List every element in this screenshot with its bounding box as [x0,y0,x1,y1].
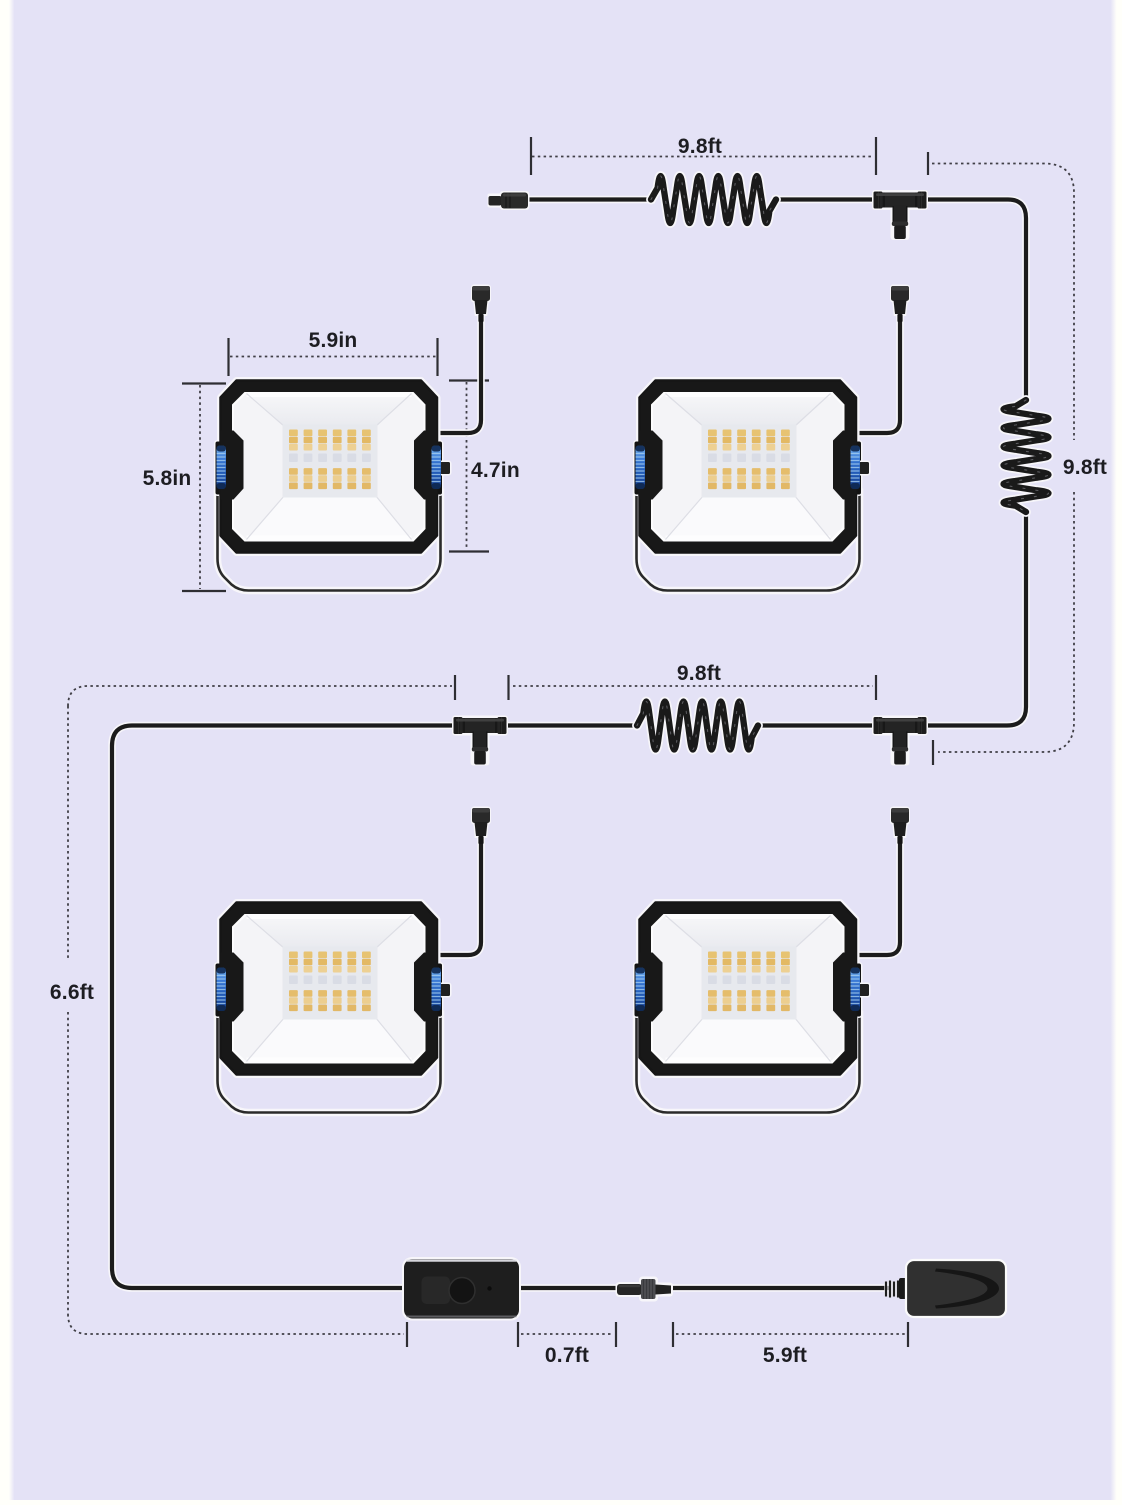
dimension 9.8ft middle [68,662,876,706]
floodlight 1 [216,381,451,591]
dimension 5.9ft [673,1322,908,1367]
svg-text:9.8ft: 9.8ft [677,662,721,685]
wire top run [527,196,655,204]
coil cable top [651,176,776,223]
plug drop light 1 [436,285,491,434]
svg-text:4.7in: 4.7in [471,459,520,482]
wire bottom run [515,1284,890,1292]
svg-text:5.9ft: 5.9ft [763,1344,807,1367]
inline connector [616,1277,674,1302]
coil cable right [1004,400,1049,512]
wire right to middle run [760,510,1026,726]
floodlight 2 [635,381,870,591]
wall plug [886,1260,1006,1317]
plug drop light 4 [855,807,910,956]
control box [402,1257,521,1321]
male end connector [488,191,530,210]
T-connector top [872,190,928,240]
dimension 4.7in [449,381,520,552]
dimension 6.6ft left [50,706,407,1347]
svg-text:0.7ft: 0.7ft [545,1344,589,1367]
svg-text:5.8in: 5.8in [143,467,192,490]
coil cable middle [637,702,758,750]
dimension 0.7ft [518,1322,616,1367]
dimension 5.9in [229,329,438,376]
plug drop light 3 [436,807,491,956]
wire middle run to bottom run [112,726,640,1289]
floodlight 4 [635,903,870,1113]
plug drop light 2 [855,285,910,434]
T-connector middle left [452,716,508,766]
svg-text:6.6ft: 6.6ft [50,981,94,1004]
dimension 5.8in [143,384,226,592]
T-connector middle right [872,716,928,766]
wire top-right corner [772,200,1026,403]
dimension 9.8ft top [531,135,876,175]
floodlight 3 [216,903,451,1113]
svg-text:5.9in: 5.9in [309,329,358,352]
svg-text:9.8ft: 9.8ft [678,135,722,158]
dimension 9.8ft right [928,152,1107,765]
svg-text:9.8ft: 9.8ft [1063,456,1107,479]
